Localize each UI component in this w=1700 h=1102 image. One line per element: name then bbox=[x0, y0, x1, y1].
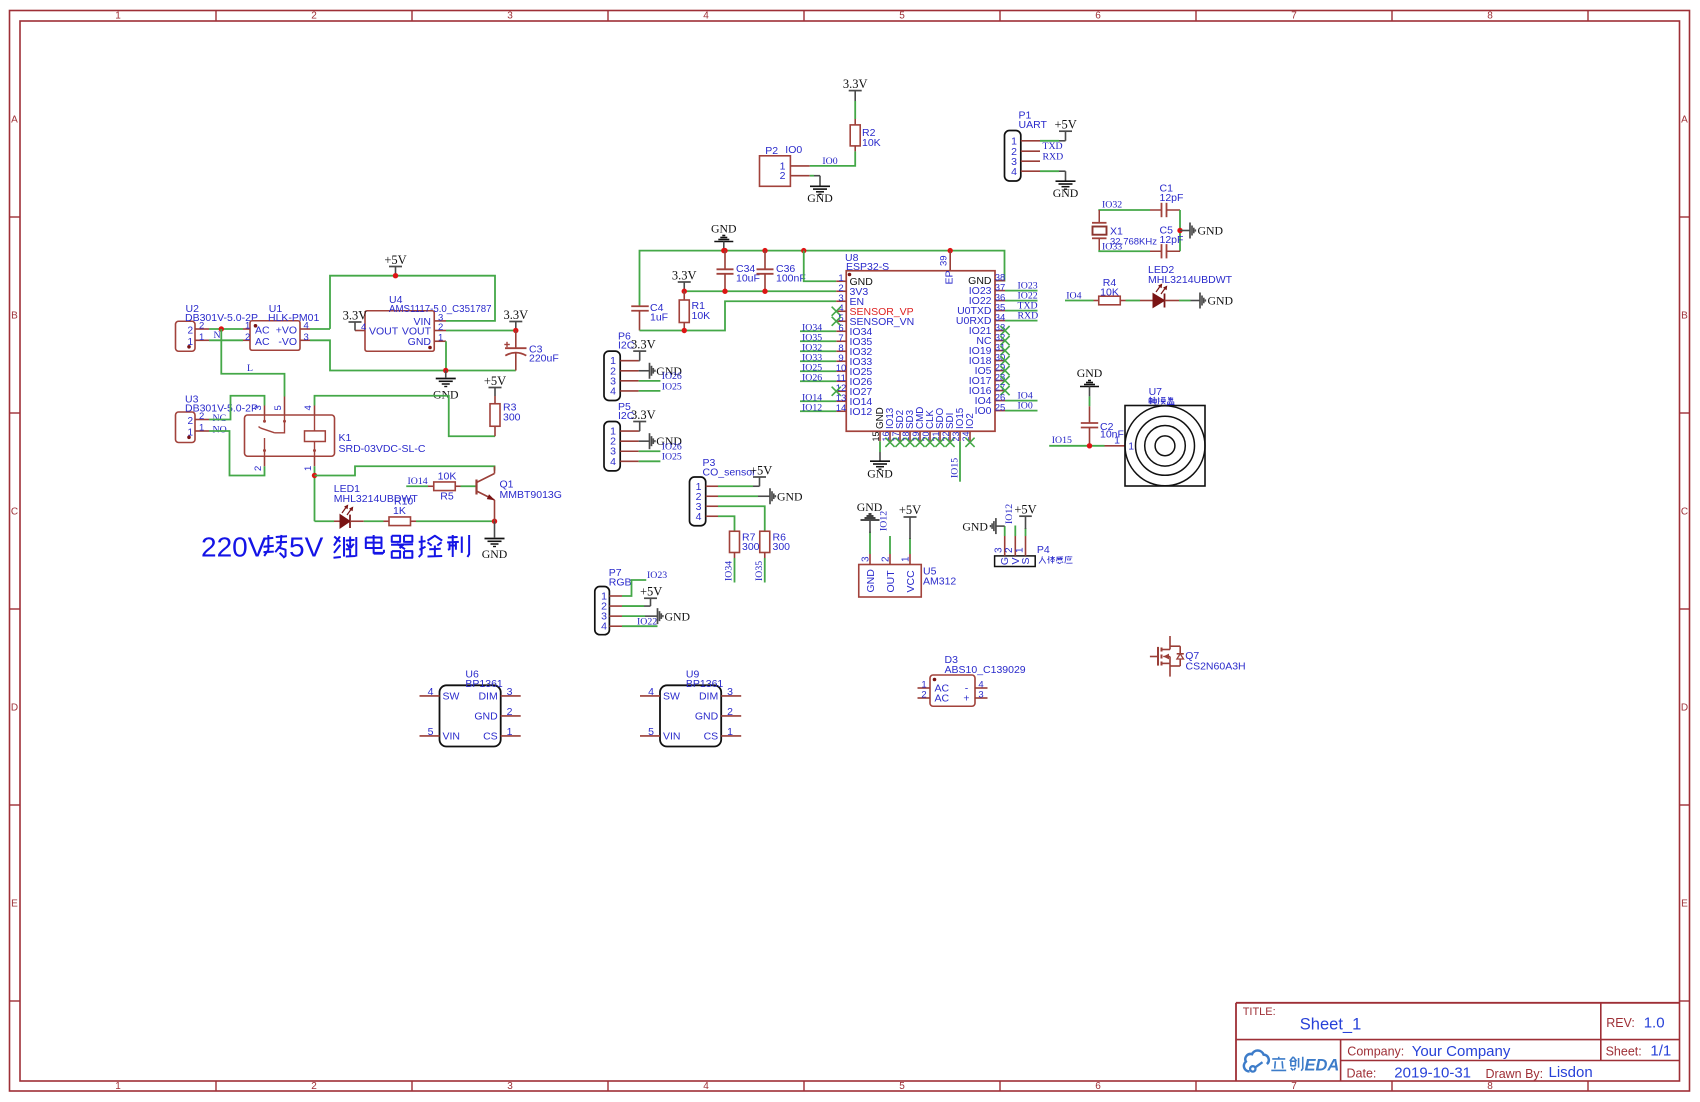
pin 1 of P4 (S) bbox=[1025, 536, 1027, 556]
svg-text:1: 1 bbox=[245, 321, 250, 332]
junction K1.1 bbox=[312, 473, 317, 478]
svg-text:DIM: DIM bbox=[699, 691, 718, 703]
pin 2 of U3 bbox=[195, 419, 209, 421]
svg-text:2: 2 bbox=[311, 11, 317, 22]
pin 3 of U9 (DIM) bbox=[721, 695, 741, 697]
svg-text:GND: GND bbox=[711, 222, 737, 236]
ground GND (P2.2) bbox=[810, 175, 814, 177]
svg-text:GND: GND bbox=[962, 519, 988, 533]
wire K1.1 node bbox=[314, 466, 316, 521]
power flag +5V (R3) bbox=[489, 387, 502, 389]
svg-text:SRD-03VDC-SL-C: SRD-03VDC-SL-C bbox=[339, 443, 426, 455]
svg-text:300: 300 bbox=[503, 412, 521, 424]
svg-text:4: 4 bbox=[304, 321, 309, 332]
pin 32 of U8 (NC) bbox=[995, 340, 1005, 342]
pin 2 of U4 bbox=[434, 330, 446, 332]
transistor Q1 MMBT9013G bbox=[475, 480, 477, 495]
svg-text:MHL3214UBDWT: MHL3214UBDWT bbox=[1148, 274, 1233, 286]
power flag 3.3V (R1 top) bbox=[678, 281, 691, 283]
LED driver U6 BP1361 bbox=[440, 685, 501, 746]
transistor Q7 CS2N60A3H bbox=[1150, 656, 1158, 658]
svg-text:1: 1 bbox=[199, 332, 204, 343]
pin 4 of U6 (SW) bbox=[420, 695, 440, 697]
svg-text:2: 2 bbox=[881, 556, 892, 562]
svg-text:L: L bbox=[247, 363, 253, 374]
pin 1 of P1 bbox=[1021, 140, 1040, 142]
svg-text:3: 3 bbox=[978, 689, 983, 700]
pin 4 of P6 bbox=[620, 390, 638, 392]
power flag +5V (P7.2) bbox=[622, 605, 644, 607]
svg-text:GND: GND bbox=[1208, 294, 1234, 308]
svg-text:Your Company: Your Company bbox=[1412, 1043, 1511, 1060]
svg-text:NO: NO bbox=[213, 424, 227, 435]
crystal X1 lead top bbox=[1098, 210, 1100, 223]
junction crystal GND bbox=[1177, 228, 1182, 233]
pin 1 of U9 (CS) bbox=[721, 735, 741, 737]
svg-text:3: 3 bbox=[861, 556, 872, 562]
no-connect pin 4 bbox=[832, 307, 841, 316]
pin 18 of U8 (SD3) bbox=[909, 431, 911, 441]
svg-text:20: 20 bbox=[921, 431, 931, 441]
wire net IO15 (U8.23) bbox=[959, 441, 961, 481]
pin 7 of U8 (IO35) bbox=[836, 340, 846, 342]
wire NC (U3.2 to K1.3) bbox=[209, 396, 265, 420]
svg-text:+: + bbox=[963, 693, 969, 705]
svg-text:Company:: Company: bbox=[1347, 1044, 1404, 1058]
pin 1 of P5 bbox=[620, 430, 638, 432]
ground GND (under U4) bbox=[445, 371, 447, 378]
wire net IO33 (U8 pin 9) bbox=[800, 360, 836, 362]
pin 3 of P6 bbox=[620, 380, 638, 382]
svg-text:E: E bbox=[11, 899, 18, 910]
svg-text:IO25: IO25 bbox=[662, 452, 682, 463]
pin 9 of U8 (IO33) bbox=[836, 360, 846, 362]
junction 3V3 at C36 bbox=[762, 289, 767, 294]
power flag 3.3V (U4.4) bbox=[349, 321, 362, 323]
wire K1.1 to Q1 collector bbox=[315, 466, 495, 475]
wire K1.4 to R3 bbox=[315, 396, 496, 437]
pin 2 of D3 bbox=[918, 697, 931, 699]
svg-text:GND: GND bbox=[807, 191, 833, 205]
svg-text:CS2N60A3H: CS2N60A3H bbox=[1186, 661, 1246, 673]
svg-text:7: 7 bbox=[1291, 11, 1297, 22]
svg-text:4: 4 bbox=[696, 511, 702, 523]
svg-text:7: 7 bbox=[1291, 1081, 1297, 1092]
svg-text:10K: 10K bbox=[692, 310, 711, 322]
svg-text:1: 1 bbox=[507, 726, 513, 738]
pin 4 of U8 (SENSOR_VP) bbox=[836, 310, 846, 312]
pin 27 of U8 (IO16) bbox=[995, 390, 1005, 392]
svg-text:2: 2 bbox=[727, 706, 733, 718]
svg-text:17: 17 bbox=[891, 431, 901, 441]
pin 19 of U8 (CMD) bbox=[919, 431, 921, 441]
no-connect pin 12 bbox=[832, 387, 841, 396]
svg-text:GND: GND bbox=[665, 610, 691, 624]
svg-text:GND: GND bbox=[474, 711, 498, 723]
pin 3 of U4 bbox=[434, 320, 446, 322]
power flag +5V (P1.1) bbox=[1040, 140, 1059, 142]
title block frame bbox=[1236, 1002, 1680, 1004]
pin 3 of U1 bbox=[300, 339, 310, 341]
svg-text:IO15: IO15 bbox=[1052, 435, 1072, 446]
pin 35 of U8 (U0TXD) bbox=[995, 310, 1005, 312]
wire U1.3 to GND rail bbox=[310, 340, 446, 370]
wire GND rail (bottom) bbox=[446, 370, 516, 372]
pin 2 of P6 bbox=[620, 370, 638, 372]
power flag 3.3V (right of U4) bbox=[509, 321, 522, 323]
svg-text:C: C bbox=[1681, 507, 1688, 518]
svg-text:4: 4 bbox=[361, 322, 366, 333]
wire U8.1 to GND rail bbox=[804, 251, 837, 282]
junction R1 bottom bbox=[682, 328, 687, 333]
svg-text:GND: GND bbox=[1198, 224, 1224, 238]
svg-text:MMBT9013G: MMBT9013G bbox=[500, 489, 562, 501]
ground GND (P1.4) bbox=[1040, 170, 1059, 172]
svg-text:4: 4 bbox=[601, 621, 607, 633]
svg-text:Drawn By:: Drawn By: bbox=[1486, 1067, 1544, 1081]
svg-text:E: E bbox=[1681, 899, 1688, 910]
ground GND arrow (P4.3) bbox=[1004, 526, 1006, 536]
pin 3 of U8 (EN) bbox=[836, 300, 846, 302]
pin 4 of P5 bbox=[620, 460, 638, 462]
svg-text:A: A bbox=[1681, 115, 1688, 126]
svg-text:2: 2 bbox=[245, 332, 250, 343]
svg-text:Sheet:: Sheet: bbox=[1606, 1044, 1642, 1058]
svg-text:1: 1 bbox=[1114, 435, 1120, 447]
svg-text:22: 22 bbox=[941, 431, 951, 441]
pin 1 of U8 (GND) bbox=[836, 280, 846, 282]
svg-text:39: 39 bbox=[939, 255, 950, 266]
svg-text:3: 3 bbox=[507, 1081, 513, 1092]
junction rail at EP bbox=[948, 248, 953, 253]
svg-text:3: 3 bbox=[507, 686, 513, 698]
svg-text:+5V: +5V bbox=[384, 253, 406, 267]
svg-text:CS: CS bbox=[483, 731, 498, 743]
svg-text:GND: GND bbox=[408, 336, 432, 348]
power flag +5V (U5.1) bbox=[909, 538, 911, 554]
svg-text:R5: R5 bbox=[440, 491, 454, 503]
svg-text:IO12: IO12 bbox=[879, 511, 890, 531]
wire U1.4 to +5V rail bbox=[310, 328, 330, 330]
svg-text:-VO: -VO bbox=[278, 336, 297, 348]
pin 23 of U8 (IO15) bbox=[959, 431, 961, 441]
svg-text:EDA: EDA bbox=[1305, 1057, 1340, 1075]
svg-text:CO_sensor: CO_sensor bbox=[703, 467, 757, 479]
pin 6 of U8 (IO34) bbox=[836, 330, 846, 332]
connector P5 (I2C) bbox=[604, 422, 620, 471]
svg-text:1uF: 1uF bbox=[650, 312, 668, 324]
resistor R1 10K bbox=[683, 291, 685, 300]
svg-text:3: 3 bbox=[994, 547, 1005, 553]
wire net IO35 (U8 pin 7) bbox=[800, 340, 836, 342]
svg-text:4: 4 bbox=[1011, 166, 1017, 178]
svg-text:IO25: IO25 bbox=[662, 381, 682, 392]
ground GND arrow (LED2) bbox=[1179, 300, 1191, 302]
svg-text:OUT: OUT bbox=[885, 570, 897, 593]
pin 2 of P4 (V) bbox=[1014, 536, 1016, 556]
svg-text:4: 4 bbox=[703, 11, 709, 22]
svg-text:2: 2 bbox=[199, 321, 204, 332]
svg-text:HLK-PM01: HLK-PM01 bbox=[268, 312, 320, 324]
wire 3V3 rail bbox=[684, 290, 836, 292]
svg-text:10K: 10K bbox=[438, 471, 457, 483]
svg-text:IO35: IO35 bbox=[754, 561, 765, 581]
svg-text:1.0: 1.0 bbox=[1644, 1015, 1665, 1032]
junction +5V rail bbox=[393, 273, 398, 278]
svg-text:AC: AC bbox=[255, 336, 270, 348]
pin 28 of U8 (IO17) bbox=[995, 380, 1005, 382]
wire net IO26 (P6.3) bbox=[639, 380, 661, 382]
svg-text:+5V: +5V bbox=[1014, 502, 1036, 516]
svg-text:N: N bbox=[214, 330, 221, 341]
pin 1 of D3 bbox=[918, 687, 931, 689]
svg-text:D: D bbox=[1681, 703, 1688, 714]
svg-text:3: 3 bbox=[507, 11, 513, 22]
svg-text:SW: SW bbox=[663, 691, 680, 703]
ground GND arrow (P6.2) bbox=[639, 370, 650, 372]
pin 16 of U8 (IO13) bbox=[889, 431, 891, 441]
pin 4 of K1 bbox=[314, 406, 316, 416]
svg-text:18: 18 bbox=[901, 431, 911, 441]
svg-text:3: 3 bbox=[253, 405, 264, 410]
connector U3 bbox=[176, 412, 196, 443]
wire NO (U3.1 to K1.2) bbox=[209, 431, 265, 476]
crystal X1 32.768KHz bbox=[1092, 222, 1107, 224]
pin 33 of U8 (IO21) bbox=[995, 330, 1005, 332]
pin 24 of U8 (IO2) bbox=[969, 431, 971, 441]
pin 3 of U6 (DIM) bbox=[501, 695, 521, 697]
svg-text:10K: 10K bbox=[1100, 287, 1119, 299]
svg-text:RXD: RXD bbox=[1018, 311, 1039, 322]
pin 1 of P2 bbox=[790, 165, 809, 167]
power flag 3.3V (R2) bbox=[849, 90, 862, 92]
pin 3 of D3 bbox=[975, 697, 988, 699]
capacitor C36 100nF bbox=[764, 251, 766, 270]
resistor R2 10K bbox=[854, 101, 856, 119]
svg-text:ESP32-S: ESP32-S bbox=[846, 261, 889, 273]
sensor U5 AM312 bbox=[859, 565, 922, 598]
svg-text:1: 1 bbox=[115, 1081, 121, 1092]
svg-text:+5V: +5V bbox=[1055, 118, 1077, 132]
junction Q1 emitter node bbox=[492, 519, 497, 524]
svg-text:+5V: +5V bbox=[750, 464, 772, 478]
junction rail at C34 bbox=[722, 248, 727, 253]
pin 15 of U8 (GND) bbox=[879, 431, 881, 441]
pin 4 of U9 (SW) bbox=[640, 695, 660, 697]
pin 2 of P2 bbox=[790, 175, 809, 177]
svg-text:14: 14 bbox=[836, 403, 847, 414]
wire net IO26 (P5.3) bbox=[639, 450, 661, 452]
svg-text:NC: NC bbox=[213, 413, 227, 424]
no-connect pin 5 bbox=[832, 317, 841, 326]
svg-text:GND: GND bbox=[433, 388, 459, 402]
svg-text:GND: GND bbox=[1053, 186, 1079, 200]
svg-text:12pF: 12pF bbox=[1160, 192, 1184, 204]
pin 39 of U8 (EP) bbox=[949, 251, 951, 271]
resistor R3 300 bbox=[494, 426, 496, 436]
wire net IO0 (U8 pin 25) bbox=[1005, 410, 1038, 412]
svg-text:A: A bbox=[11, 115, 18, 126]
svg-text:5: 5 bbox=[428, 726, 434, 738]
svg-text:4: 4 bbox=[703, 1081, 709, 1092]
svg-text:VOUT: VOUT bbox=[369, 325, 399, 337]
svg-text:2: 2 bbox=[188, 416, 194, 427]
no-connect pin 18 bbox=[905, 438, 914, 447]
pin 2 of U5 (OUT) bbox=[889, 554, 891, 565]
wire +5V rail bbox=[330, 276, 495, 329]
no-connect pin 17 bbox=[895, 438, 904, 447]
pin 2 of U8 (3V3) bbox=[836, 290, 846, 292]
wire net IO23 (U8 pin 37) bbox=[1005, 290, 1038, 292]
wire IO4 to R4 bbox=[1065, 300, 1094, 302]
ground GND (U8 pin15) bbox=[879, 452, 881, 461]
svg-text:10K: 10K bbox=[862, 137, 881, 149]
svg-text:IO33: IO33 bbox=[1102, 242, 1122, 253]
no-connect pin 21 bbox=[935, 438, 944, 447]
pin 25 of U8 (IO0) bbox=[995, 410, 1005, 412]
svg-text:1: 1 bbox=[303, 466, 314, 471]
pin 30 of U8 (IO18) bbox=[995, 360, 1005, 362]
pin 4 of P7 bbox=[609, 625, 622, 627]
svg-text:Sheet_1: Sheet_1 bbox=[1300, 1016, 1361, 1034]
pin 29 of U8 (IO5) bbox=[995, 370, 1005, 372]
svg-text:GND: GND bbox=[695, 711, 719, 723]
wire net IO15 (to U7) bbox=[1049, 445, 1104, 447]
svg-text:300: 300 bbox=[773, 541, 791, 553]
pin 1 of K1 bbox=[314, 456, 316, 466]
svg-text:GND: GND bbox=[867, 467, 893, 481]
svg-text:3.3V: 3.3V bbox=[343, 309, 368, 323]
svg-text:DIM: DIM bbox=[478, 691, 497, 703]
wire net TXD (U8 pin 35) bbox=[1005, 310, 1038, 312]
no-connect pin 16 bbox=[885, 438, 894, 447]
wire net IO33 (crystal bottom) bbox=[1099, 250, 1150, 251]
svg-text:25: 25 bbox=[995, 402, 1006, 413]
pin 4 of D3 bbox=[975, 687, 988, 689]
module U1 HLK-PM01 bbox=[250, 321, 300, 351]
pin 5 of U8 (SENSOR_VN) bbox=[836, 320, 846, 322]
pin 31 of U8 (IO19) bbox=[995, 350, 1005, 352]
connector P4 (人体感应) bbox=[995, 556, 1036, 567]
wire GND top rail bbox=[640, 251, 1005, 306]
junction net L bbox=[219, 326, 224, 331]
pin 1 of U7 bbox=[1105, 445, 1126, 447]
pin 8 of U8 (IO32) bbox=[836, 350, 846, 352]
junction C3 top bbox=[513, 328, 518, 333]
svg-text:AM312: AM312 bbox=[923, 576, 956, 588]
capacitor C3 220uF bbox=[515, 331, 517, 349]
wire net IO25 (P6.4) bbox=[639, 390, 661, 392]
pin 1 of U2 bbox=[195, 339, 209, 341]
svg-text:+5V: +5V bbox=[484, 374, 506, 388]
svg-text:BP1361: BP1361 bbox=[465, 678, 503, 690]
svg-text:5V: 5V bbox=[289, 532, 324, 563]
pin 3 of P7 bbox=[609, 615, 622, 617]
junction GND rail bbox=[443, 368, 448, 373]
svg-text:2: 2 bbox=[507, 706, 513, 718]
svg-text:ABS10_C139029: ABS10_C139029 bbox=[945, 664, 1026, 676]
pin 22 of U8 (SDI) bbox=[949, 431, 951, 441]
svg-text:GND: GND bbox=[1077, 366, 1103, 380]
junction rail at C36 bbox=[762, 248, 767, 253]
svg-text:8: 8 bbox=[1487, 1081, 1493, 1092]
pin 1 of P3 bbox=[706, 485, 718, 487]
pin 3 of U5 (GND) bbox=[869, 554, 871, 565]
svg-text:1K: 1K bbox=[393, 505, 406, 517]
svg-text:RXD: RXD bbox=[1043, 152, 1064, 163]
svg-text:2: 2 bbox=[780, 170, 786, 182]
ground GND arrow (P7.3) bbox=[622, 615, 645, 617]
pin 5 of U6 (VIN) bbox=[420, 735, 440, 737]
pin 2 of U1 bbox=[243, 339, 250, 341]
pin 2 of U9 (GND) bbox=[721, 715, 741, 717]
LED driver U9 BP1361 bbox=[660, 685, 721, 746]
wire net IO14 (U8 pin 13) bbox=[800, 400, 836, 402]
svg-text:+VO: +VO bbox=[276, 324, 297, 336]
no-connect pin 28 bbox=[1000, 376, 1009, 385]
no-connect pin 19 bbox=[915, 438, 924, 447]
svg-text:TXD: TXD bbox=[1043, 141, 1063, 152]
wire P3.4 to R7 bbox=[718, 516, 735, 531]
svg-text:B: B bbox=[1681, 311, 1688, 322]
pin 2 of U6 (GND) bbox=[501, 715, 521, 717]
pin 3 of P3 bbox=[706, 505, 718, 507]
svg-text:4: 4 bbox=[610, 456, 616, 468]
wire net IO25 (P5.4) bbox=[639, 460, 661, 462]
resistor R7 300 bbox=[730, 531, 740, 552]
pin 1 of P7 bbox=[609, 595, 622, 597]
wire net IO25 (U8 pin 10) bbox=[800, 370, 836, 372]
svg-text:5: 5 bbox=[899, 1081, 905, 1092]
svg-text:P2: P2 bbox=[765, 145, 778, 157]
svg-text:IO12: IO12 bbox=[850, 406, 873, 418]
svg-text:300: 300 bbox=[742, 541, 760, 553]
capacitor C4 1uF bbox=[631, 305, 649, 307]
svg-text:2: 2 bbox=[438, 322, 443, 333]
svg-text:GND: GND bbox=[865, 569, 877, 593]
svg-text:2: 2 bbox=[188, 325, 194, 336]
no-connect pin 22 bbox=[945, 438, 954, 447]
svg-text:1: 1 bbox=[199, 423, 204, 434]
pin 2 of K1 bbox=[264, 456, 266, 466]
pin 2 of P7 bbox=[609, 605, 622, 607]
svg-text:4: 4 bbox=[648, 686, 654, 698]
svg-text:VIN: VIN bbox=[443, 731, 461, 743]
svg-text:IO26: IO26 bbox=[802, 372, 822, 383]
svg-text:10uF: 10uF bbox=[736, 273, 760, 285]
pin 20 of U8 (CLK) bbox=[929, 431, 931, 441]
svg-text:4: 4 bbox=[303, 405, 314, 410]
no-connect pin 33 bbox=[1000, 326, 1009, 335]
wire net RXD (U8 pin 34) bbox=[1005, 320, 1038, 322]
wire R5 to Q1 base bbox=[461, 485, 477, 487]
capacitor C1 12pF bbox=[1150, 209, 1162, 211]
svg-text:16: 16 bbox=[881, 431, 891, 441]
svg-text:SW: SW bbox=[443, 691, 460, 703]
wire net IO32 (U8 pin 8) bbox=[800, 350, 836, 352]
svg-text:1: 1 bbox=[901, 556, 912, 562]
wire net IO34 (below R7) bbox=[734, 558, 736, 583]
svg-text:VIN: VIN bbox=[663, 731, 681, 743]
bridge rectifier D3 ABS10 bbox=[930, 675, 975, 706]
svg-text:U7: U7 bbox=[1149, 386, 1163, 398]
pin 1 of U5 (VCC) bbox=[909, 554, 911, 565]
wire net IO35 (below R6) bbox=[764, 558, 766, 583]
svg-text:5: 5 bbox=[648, 726, 654, 738]
pin 2 of P3 bbox=[706, 495, 718, 497]
svg-text:2: 2 bbox=[253, 466, 264, 471]
svg-text:S: S bbox=[1020, 557, 1032, 564]
